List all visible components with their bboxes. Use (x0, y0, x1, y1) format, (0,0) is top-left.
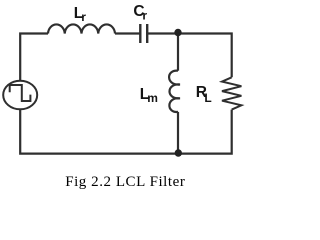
svg-text:L: L (204, 91, 211, 105)
svg-text:Fig 2.2 LCL Filter: Fig 2.2 LCL Filter (65, 174, 185, 190)
svg-text:r: r (142, 8, 147, 22)
svg-text:r: r (81, 10, 86, 24)
svg-text:m: m (147, 91, 158, 105)
